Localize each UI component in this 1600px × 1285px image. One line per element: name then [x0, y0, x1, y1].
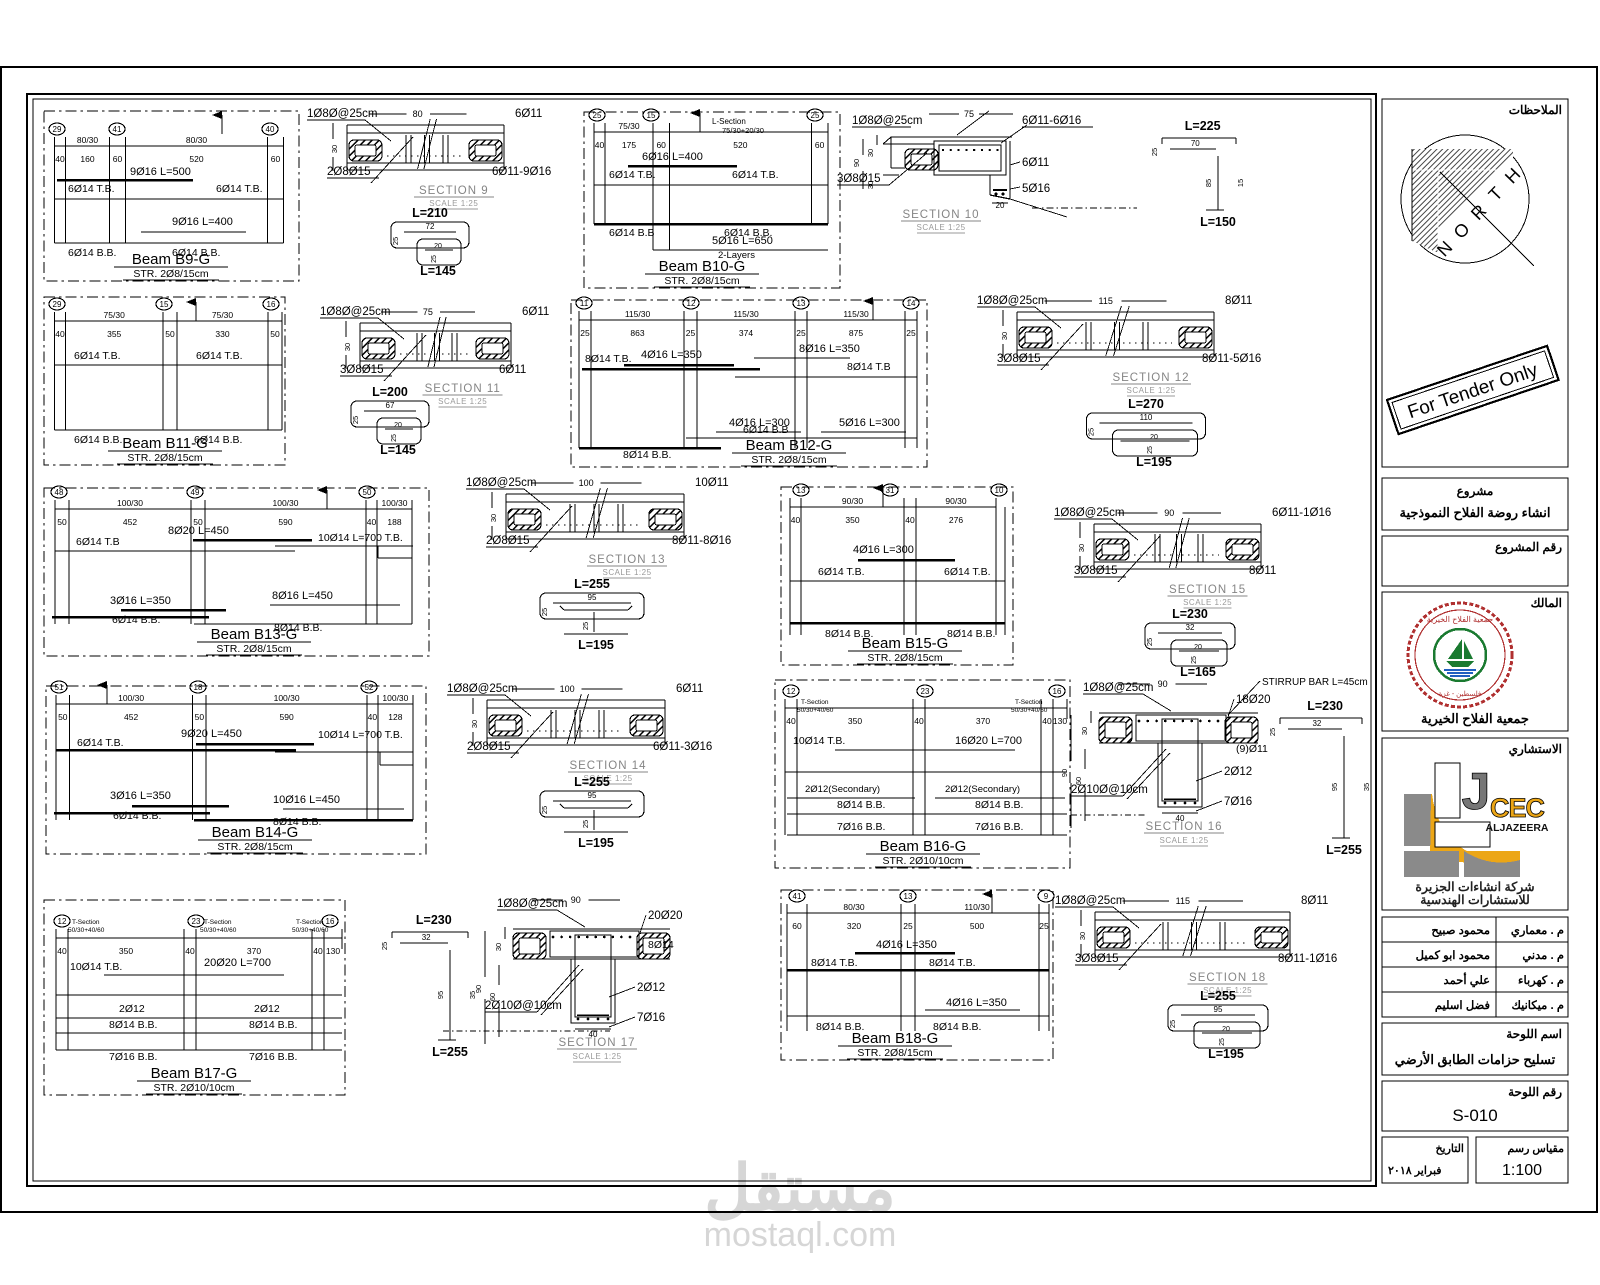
- svg-text:SECTION 14: SECTION 14: [569, 760, 646, 772]
- svg-text:6Ø11-9Ø16: 6Ø11-9Ø16: [492, 166, 551, 178]
- svg-text:ALJAZEERA: ALJAZEERA: [1485, 822, 1548, 834]
- svg-text:520: 520: [189, 154, 203, 164]
- svg-text:75/30: 75/30: [618, 121, 640, 131]
- svg-text:8Ø16 L=350: 8Ø16 L=350: [799, 343, 860, 355]
- svg-text:100: 100: [560, 684, 575, 694]
- svg-text:40: 40: [266, 125, 275, 134]
- svg-text:90/30: 90/30: [945, 496, 967, 506]
- svg-text:20Ø20 L=700: 20Ø20 L=700: [204, 957, 271, 969]
- svg-text:6Ø14 T.B.: 6Ø14 T.B.: [609, 169, 656, 181]
- svg-text:110: 110: [1140, 413, 1153, 422]
- svg-text:SECTION 12: SECTION 12: [1112, 372, 1189, 384]
- svg-text:STR. 2Ø10/10cm: STR. 2Ø10/10cm: [153, 1082, 234, 1094]
- svg-text:500: 500: [970, 921, 984, 931]
- svg-text:370: 370: [976, 716, 990, 726]
- svg-text:Beam B13-G: Beam B13-G: [211, 626, 298, 643]
- svg-text:30: 30: [866, 181, 875, 189]
- svg-text:14: 14: [907, 299, 916, 308]
- svg-text:130: 130: [1053, 716, 1067, 726]
- svg-text:8Ø14 B.B.: 8Ø14 B.B.: [947, 628, 995, 640]
- svg-text:40: 40: [791, 515, 801, 525]
- svg-text:90: 90: [1164, 508, 1174, 518]
- svg-text:3Ø8Ø15: 3Ø8Ø15: [1075, 953, 1118, 965]
- svg-text:L=255: L=255: [1200, 989, 1236, 1003]
- svg-text:49: 49: [191, 488, 200, 497]
- svg-text:2Ø12: 2Ø12: [119, 1003, 145, 1015]
- svg-text:10Ø14 L=700 T.B.: 10Ø14 L=700 T.B.: [318, 532, 403, 544]
- svg-text:L=230: L=230: [1172, 607, 1208, 621]
- svg-text:8Ø14 B.B.: 8Ø14 B.B.: [933, 1021, 981, 1033]
- svg-text:9Ø20 L=450: 9Ø20 L=450: [181, 728, 242, 740]
- svg-text:6Ø14 B.B.: 6Ø14 B.B.: [113, 810, 161, 822]
- svg-text:6Ø14 B.B: 6Ø14 B.B: [609, 227, 655, 239]
- svg-text:SCALE 1:25: SCALE 1:25: [916, 223, 965, 232]
- svg-text:40: 40: [367, 517, 377, 527]
- svg-text:60: 60: [792, 921, 802, 931]
- svg-text:25: 25: [906, 328, 916, 338]
- svg-text:SECTION 16: SECTION 16: [1145, 821, 1222, 833]
- svg-text:2Ø8Ø15: 2Ø8Ø15: [327, 166, 370, 178]
- svg-text:48: 48: [55, 488, 64, 497]
- svg-text:(9)Ø11: (9)Ø11: [1236, 743, 1268, 755]
- svg-text:8Ø11-8Ø16: 8Ø11-8Ø16: [672, 535, 731, 547]
- svg-text:T-Section: T-Section: [204, 919, 232, 926]
- svg-text:3Ø8Ø15: 3Ø8Ø15: [1074, 565, 1117, 577]
- svg-text:8Ø14 T.B.: 8Ø14 T.B.: [585, 353, 632, 365]
- svg-text:9Ø16 L=400: 9Ø16 L=400: [172, 216, 233, 228]
- svg-text:67: 67: [386, 401, 395, 410]
- svg-text:13: 13: [797, 486, 806, 495]
- svg-text:70: 70: [1191, 139, 1200, 148]
- svg-text:10Ø14 T.B.: 10Ø14 T.B.: [70, 961, 122, 973]
- svg-text:115/30: 115/30: [625, 309, 651, 319]
- svg-text:2Ø12: 2Ø12: [254, 1003, 280, 1015]
- svg-text:590: 590: [278, 517, 292, 527]
- svg-text:350: 350: [845, 515, 859, 525]
- svg-text:STR. 2Ø8/15cm: STR. 2Ø8/15cm: [857, 1047, 933, 1059]
- svg-text:15: 15: [647, 111, 656, 120]
- svg-text:50/30+40/60: 50/30+40/60: [68, 927, 105, 934]
- svg-text:25: 25: [1268, 728, 1277, 736]
- svg-text:10Ø14 L=700 T.B.: 10Ø14 L=700 T.B.: [318, 729, 403, 741]
- svg-text:SECTION 18: SECTION 18: [1189, 972, 1266, 984]
- svg-text:30: 30: [470, 720, 479, 728]
- svg-text:STR. 2Ø8/15cm: STR. 2Ø8/15cm: [664, 275, 740, 287]
- svg-text:16Ø20 L=700: 16Ø20 L=700: [955, 735, 1022, 747]
- svg-text:15: 15: [160, 300, 169, 309]
- svg-text:8Ø11-5Ø16: 8Ø11-5Ø16: [1202, 353, 1261, 365]
- svg-text:590: 590: [280, 712, 294, 722]
- svg-text:35: 35: [1362, 783, 1371, 791]
- svg-text:Beam B15-G: Beam B15-G: [862, 635, 949, 652]
- svg-text:18: 18: [194, 683, 203, 692]
- svg-text:محمود ابو كميل: محمود ابو كميل: [1416, 949, 1490, 963]
- svg-text:25: 25: [581, 820, 590, 828]
- svg-text:32: 32: [1312, 719, 1321, 728]
- svg-text:100/30: 100/30: [382, 498, 408, 508]
- svg-text:STR. 2Ø8/15cm: STR. 2Ø8/15cm: [127, 452, 203, 464]
- svg-text:6Ø14 T.B.: 6Ø14 T.B.: [818, 566, 865, 578]
- svg-text:8Ø14: 8Ø14: [648, 939, 674, 951]
- svg-text:L=255: L=255: [574, 775, 610, 789]
- svg-text:175: 175: [622, 140, 636, 150]
- svg-text:31: 31: [886, 486, 895, 495]
- svg-text:100/30: 100/30: [117, 498, 143, 508]
- svg-text:30: 30: [1000, 332, 1009, 340]
- svg-text:30: 30: [1077, 544, 1086, 552]
- svg-text:40: 40: [57, 946, 67, 956]
- svg-text:6Ø11-3Ø16: 6Ø11-3Ø16: [653, 741, 712, 753]
- svg-text:SECTION 15: SECTION 15: [1169, 584, 1246, 596]
- svg-text:6Ø11: 6Ø11: [515, 108, 542, 120]
- svg-text:60: 60: [656, 140, 666, 150]
- svg-text:25: 25: [351, 416, 360, 424]
- svg-text:30: 30: [343, 343, 352, 351]
- svg-text:875: 875: [849, 328, 863, 338]
- svg-text:5Ø16 L=300: 5Ø16 L=300: [839, 417, 900, 429]
- svg-text:SECTION 17: SECTION 17: [558, 1037, 635, 1049]
- svg-text:علي أحمد: علي أحمد: [1444, 972, 1491, 988]
- svg-text:STIRRUP BAR L=45cm: STIRRUP BAR L=45cm: [1262, 677, 1368, 688]
- svg-text:Beam B18-G: Beam B18-G: [852, 1030, 939, 1047]
- svg-text:12: 12: [787, 687, 796, 696]
- svg-text:2Ø12(Secondary): 2Ø12(Secondary): [945, 784, 1020, 795]
- svg-text:6Ø14 B.B.: 6Ø14 B.B.: [74, 434, 122, 446]
- svg-text:7Ø16 B.B.: 7Ø16 B.B.: [975, 821, 1023, 833]
- svg-text:فلسطين - غزة: فلسطين - غزة: [1439, 690, 1482, 698]
- svg-text:T-Section: T-Section: [801, 699, 829, 706]
- svg-text:75/30+20/30: 75/30+20/30: [722, 126, 764, 135]
- svg-text:90: 90: [1060, 769, 1069, 777]
- svg-text:6Ø14 T.B.: 6Ø14 T.B.: [216, 183, 263, 195]
- svg-text:8Ø20 L=450: 8Ø20 L=450: [168, 525, 229, 537]
- svg-text:100/30: 100/30: [273, 498, 299, 508]
- svg-text:452: 452: [123, 517, 137, 527]
- svg-text:11: 11: [580, 299, 589, 308]
- svg-text:330: 330: [215, 329, 229, 339]
- svg-text:25: 25: [1087, 428, 1096, 436]
- svg-text:L=255: L=255: [1326, 843, 1362, 857]
- svg-text:م . مدني: م . مدني: [1522, 950, 1564, 963]
- svg-text:100/30: 100/30: [118, 693, 144, 703]
- svg-text:30: 30: [866, 149, 875, 157]
- svg-text:L=195: L=195: [1208, 1047, 1244, 1061]
- svg-text:8Ø14 T.B.: 8Ø14 T.B.: [929, 957, 976, 969]
- svg-text:L=195: L=195: [1136, 455, 1172, 469]
- svg-text:جمعية الفلاح الخيرية: جمعية الفلاح الخيرية: [1421, 711, 1529, 727]
- svg-text:40: 40: [55, 329, 65, 339]
- svg-text:25: 25: [1191, 656, 1198, 664]
- svg-text:8Ø14 B.B.: 8Ø14 B.B.: [975, 799, 1023, 811]
- svg-text:محمود صبيح: محمود صبيح: [1431, 925, 1490, 938]
- svg-text:115: 115: [1176, 896, 1190, 906]
- svg-text:L=195: L=195: [578, 638, 614, 652]
- svg-text:5Ø16: 5Ø16: [1022, 183, 1050, 195]
- svg-text:25: 25: [796, 328, 806, 338]
- svg-text:L=195: L=195: [578, 836, 614, 850]
- svg-text:95: 95: [436, 991, 445, 999]
- svg-text:23: 23: [192, 917, 201, 926]
- svg-text:20: 20: [394, 422, 402, 429]
- svg-text:320: 320: [847, 921, 861, 931]
- svg-text:25: 25: [580, 328, 590, 338]
- svg-text:SCALE 1:25: SCALE 1:25: [1183, 598, 1232, 607]
- svg-text:8Ø11-1Ø16: 8Ø11-1Ø16: [1278, 953, 1337, 965]
- svg-text:40: 40: [595, 140, 605, 150]
- svg-text:4Ø16 L=350: 4Ø16 L=350: [641, 349, 702, 361]
- svg-text:25: 25: [391, 237, 400, 245]
- svg-text:110/30: 110/30: [964, 902, 990, 912]
- svg-text:75: 75: [964, 109, 974, 119]
- svg-text:25: 25: [581, 622, 590, 630]
- svg-text:10: 10: [995, 486, 1004, 495]
- svg-text:8Ø14 T.B: 8Ø14 T.B: [847, 361, 891, 373]
- svg-text:L=145: L=145: [420, 264, 456, 278]
- svg-text:30: 30: [494, 943, 503, 951]
- svg-text:3Ø8Ø15: 3Ø8Ø15: [340, 364, 383, 376]
- svg-text:23: 23: [921, 687, 930, 696]
- svg-text:370: 370: [247, 946, 261, 956]
- svg-text:40: 40: [914, 716, 924, 726]
- svg-text:30: 30: [1080, 727, 1089, 735]
- svg-text:115/30: 115/30: [733, 309, 759, 319]
- svg-text:فبراير ٢٠١٨: فبراير ٢٠١٨: [1388, 1165, 1442, 1177]
- svg-text:90: 90: [852, 159, 861, 167]
- svg-text:J: J: [1462, 763, 1491, 821]
- svg-text:41: 41: [113, 125, 122, 134]
- svg-text:12: 12: [687, 299, 696, 308]
- svg-text:160: 160: [80, 154, 94, 164]
- svg-text:8Ø11: 8Ø11: [1249, 565, 1276, 577]
- svg-text:32: 32: [1186, 623, 1195, 632]
- svg-text:20: 20: [1222, 1026, 1230, 1033]
- svg-text:2Ø10Ø@10cm: 2Ø10Ø@10cm: [1071, 784, 1148, 796]
- svg-text:8Ø14 B.B.: 8Ø14 B.B.: [109, 1019, 157, 1031]
- svg-text:L=230: L=230: [1307, 699, 1343, 713]
- svg-text:2Ø8Ø15: 2Ø8Ø15: [486, 535, 529, 547]
- svg-text:SCALE 1:25: SCALE 1:25: [438, 397, 487, 406]
- svg-text:16: 16: [267, 300, 276, 309]
- svg-text:6Ø11-6Ø16: 6Ø11-6Ø16: [1022, 115, 1081, 127]
- svg-text:رقم اللوحة: رقم اللوحة: [1508, 1085, 1562, 1100]
- svg-text:5Ø16 L=650: 5Ø16 L=650: [712, 235, 773, 247]
- svg-text:7Ø16: 7Ø16: [1224, 796, 1252, 808]
- svg-text:L=225: L=225: [1185, 119, 1221, 133]
- svg-text:6Ø16 L=400: 6Ø16 L=400: [642, 151, 703, 163]
- svg-text:1Ø8Ø@25cm: 1Ø8Ø@25cm: [320, 306, 390, 318]
- svg-text:4Ø16 L=350: 4Ø16 L=350: [946, 997, 1007, 1009]
- svg-text:SCALE 1:25: SCALE 1:25: [1159, 836, 1208, 845]
- svg-text:2Ø10Ø@10cm: 2Ø10Ø@10cm: [485, 1000, 562, 1012]
- svg-text:8Ø11: 8Ø11: [1225, 295, 1252, 307]
- svg-text:فضل اسليم: فضل اسليم: [1435, 999, 1491, 1013]
- svg-text:75/30: 75/30: [212, 310, 234, 320]
- svg-text:95: 95: [588, 593, 597, 602]
- svg-text:30: 30: [1078, 932, 1087, 940]
- svg-text:10Ø14 T.B.: 10Ø14 T.B.: [793, 735, 845, 747]
- svg-text:41: 41: [793, 892, 802, 901]
- svg-text:50: 50: [363, 488, 372, 497]
- svg-text:40: 40: [368, 712, 378, 722]
- svg-text:1Ø8Ø@25cm: 1Ø8Ø@25cm: [1054, 507, 1124, 519]
- svg-text:10Ø11: 10Ø11: [695, 477, 729, 489]
- svg-text:2Ø12: 2Ø12: [1224, 766, 1252, 778]
- svg-text:SCALE 1:25: SCALE 1:25: [572, 1052, 621, 1061]
- svg-text:25: 25: [540, 608, 549, 616]
- svg-text:85: 85: [1204, 179, 1213, 187]
- svg-text:75: 75: [423, 307, 433, 317]
- svg-text:13: 13: [797, 299, 806, 308]
- svg-text:18Ø20: 18Ø20: [1236, 694, 1271, 706]
- svg-text:L=150: L=150: [1200, 215, 1236, 229]
- svg-text:6Ø14 B.B: 6Ø14 B.B: [743, 424, 789, 436]
- svg-text:1Ø8Ø@25cm: 1Ø8Ø@25cm: [466, 477, 536, 489]
- svg-text:374: 374: [739, 328, 753, 338]
- svg-text:الملاحظات: الملاحظات: [1509, 103, 1562, 117]
- svg-text:25: 25: [1168, 1020, 1177, 1028]
- svg-text:Beam B14-G: Beam B14-G: [212, 824, 299, 841]
- svg-text:رقم المشروع: رقم المشروع: [1495, 540, 1562, 555]
- svg-text:50/30+40/60: 50/30+40/60: [200, 927, 237, 934]
- svg-text:8Ø16 L=450: 8Ø16 L=450: [272, 590, 333, 602]
- svg-text:20: 20: [1150, 434, 1158, 441]
- svg-text:80: 80: [413, 109, 423, 119]
- svg-text:1Ø8Ø@25cm: 1Ø8Ø@25cm: [977, 295, 1047, 307]
- svg-text:8Ø14 B.B.: 8Ø14 B.B.: [837, 799, 885, 811]
- svg-text:2Ø8Ø15: 2Ø8Ø15: [467, 741, 510, 753]
- svg-text:80/30: 80/30: [77, 135, 99, 145]
- svg-text:25: 25: [391, 434, 398, 442]
- svg-text:80/30: 80/30: [186, 135, 208, 145]
- svg-text:STR. 2Ø8/15cm: STR. 2Ø8/15cm: [751, 454, 827, 466]
- svg-text:للاستشارات الهندسية: للاستشارات الهندسية: [1420, 893, 1530, 908]
- svg-text:SCALE 1:25: SCALE 1:25: [602, 568, 651, 577]
- svg-text:29: 29: [53, 125, 62, 134]
- svg-text:7Ø16: 7Ø16: [637, 1012, 665, 1024]
- svg-text:6Ø14 T.B.: 6Ø14 T.B.: [74, 350, 121, 362]
- svg-text:9: 9: [1044, 892, 1049, 901]
- svg-text:T-Section: T-Section: [72, 919, 100, 926]
- svg-text:25: 25: [540, 806, 549, 814]
- svg-text:40: 40: [905, 515, 915, 525]
- svg-text:1:100: 1:100: [1502, 1162, 1542, 1179]
- svg-text:95: 95: [588, 791, 597, 800]
- svg-text:1Ø8Ø@25cm: 1Ø8Ø@25cm: [1055, 895, 1125, 907]
- svg-text:128: 128: [388, 712, 402, 722]
- svg-text:L=255: L=255: [432, 1045, 468, 1059]
- svg-text:20: 20: [1194, 644, 1202, 651]
- svg-text:40: 40: [786, 716, 796, 726]
- svg-text:72: 72: [426, 222, 435, 231]
- svg-text:المالك: المالك: [1531, 596, 1562, 610]
- svg-text:9Ø16 L=500: 9Ø16 L=500: [130, 166, 191, 178]
- svg-text:16: 16: [326, 917, 335, 926]
- svg-text:863: 863: [630, 328, 644, 338]
- svg-text:التاريخ: التاريخ: [1435, 1143, 1464, 1155]
- svg-text:SECTION 13: SECTION 13: [588, 554, 665, 566]
- svg-text:25: 25: [1219, 1038, 1226, 1046]
- svg-text:SCALE 1:25: SCALE 1:25: [1126, 386, 1175, 395]
- svg-text:2Ø12(Secondary): 2Ø12(Secondary): [805, 784, 880, 795]
- svg-text:20Ø20: 20Ø20: [648, 910, 683, 922]
- svg-text:50: 50: [165, 329, 175, 339]
- svg-text:12: 12: [58, 917, 67, 926]
- svg-text:15: 15: [1236, 179, 1245, 187]
- svg-text:8Ø11: 8Ø11: [1301, 895, 1328, 907]
- svg-text:8Ø14 T.B.: 8Ø14 T.B.: [811, 957, 858, 969]
- svg-text:50: 50: [57, 517, 67, 527]
- svg-text:مشروع: مشروع: [1457, 484, 1494, 499]
- svg-text:50/30+40/60: 50/30+40/60: [797, 707, 834, 714]
- svg-text:STR. 2Ø8/15cm: STR. 2Ø8/15cm: [133, 268, 209, 280]
- svg-text:Beam B11-G: Beam B11-G: [122, 435, 208, 452]
- svg-text:115/30: 115/30: [843, 309, 869, 319]
- svg-text:1Ø8Ø@25cm: 1Ø8Ø@25cm: [852, 115, 922, 127]
- svg-text:10Ø16 L=450: 10Ø16 L=450: [273, 794, 340, 806]
- svg-text:Beam B9-G: Beam B9-G: [132, 251, 210, 268]
- svg-text:6Ø14 T.B.: 6Ø14 T.B.: [944, 566, 991, 578]
- svg-text:SECTION 11: SECTION 11: [425, 383, 501, 395]
- svg-text:SECTION 9: SECTION 9: [419, 185, 489, 197]
- svg-text:6Ø11: 6Ø11: [499, 364, 526, 376]
- svg-text:95: 95: [1330, 783, 1339, 791]
- svg-text:L=230: L=230: [416, 913, 452, 927]
- svg-text:20: 20: [996, 201, 1005, 210]
- svg-text:35: 35: [468, 991, 477, 999]
- svg-text:50: 50: [58, 712, 68, 722]
- svg-text:40: 40: [313, 946, 323, 956]
- svg-text:L=210: L=210: [412, 206, 448, 220]
- svg-text:6Ø14 B.B.: 6Ø14 B.B.: [112, 614, 160, 626]
- svg-text:Beam B10-G: Beam B10-G: [659, 258, 746, 275]
- svg-text:20: 20: [434, 243, 442, 250]
- svg-text:STR. 2Ø8/15cm: STR. 2Ø8/15cm: [217, 841, 293, 853]
- svg-text:8Ø14 B.B.: 8Ø14 B.B.: [249, 1019, 297, 1031]
- svg-text:mostaql.com: mostaql.com: [704, 1216, 897, 1254]
- svg-text:6Ø14 B.B.: 6Ø14 B.B.: [68, 247, 116, 259]
- svg-text:7Ø16 B.B.: 7Ø16 B.B.: [109, 1051, 157, 1063]
- svg-text:S-010: S-010: [1452, 1106, 1497, 1125]
- svg-text:4Ø16 L=300: 4Ø16 L=300: [853, 544, 914, 556]
- svg-text:60: 60: [113, 154, 123, 164]
- svg-text:452: 452: [124, 712, 138, 722]
- svg-text:40: 40: [1042, 716, 1052, 726]
- svg-text:T-Section: T-Section: [296, 919, 324, 926]
- svg-text:32: 32: [422, 933, 431, 942]
- svg-text:2Ø12: 2Ø12: [637, 982, 665, 994]
- svg-text:100: 100: [579, 478, 594, 488]
- svg-text:30: 30: [330, 145, 339, 153]
- svg-text:L=145: L=145: [380, 443, 416, 457]
- svg-text:Beam B16-G: Beam B16-G: [880, 838, 967, 855]
- svg-text:520: 520: [733, 140, 747, 150]
- svg-text:6Ø14 T.B.: 6Ø14 T.B.: [68, 183, 115, 195]
- svg-text:25: 25: [1147, 446, 1154, 454]
- svg-text:الاستشاري: الاستشاري: [1509, 742, 1562, 757]
- svg-text:L=255: L=255: [574, 577, 610, 591]
- svg-text:Beam B12-G: Beam B12-G: [746, 437, 833, 454]
- svg-text:انشاء روضة الفلاح النموذجية: انشاء روضة الفلاح النموذجية: [1399, 505, 1550, 521]
- svg-text:25: 25: [686, 328, 696, 338]
- svg-text:8Ø14 B.B.: 8Ø14 B.B.: [623, 449, 671, 461]
- svg-text:60: 60: [815, 140, 825, 150]
- svg-text:6Ø11: 6Ø11: [522, 306, 549, 318]
- svg-text:م . كهرباء: م . كهرباء: [1518, 974, 1564, 988]
- svg-text:L=165: L=165: [1180, 665, 1216, 679]
- svg-text:6Ø14 T.B: 6Ø14 T.B: [76, 536, 120, 548]
- svg-text:51: 51: [55, 683, 64, 692]
- svg-text:6Ø11: 6Ø11: [676, 683, 703, 695]
